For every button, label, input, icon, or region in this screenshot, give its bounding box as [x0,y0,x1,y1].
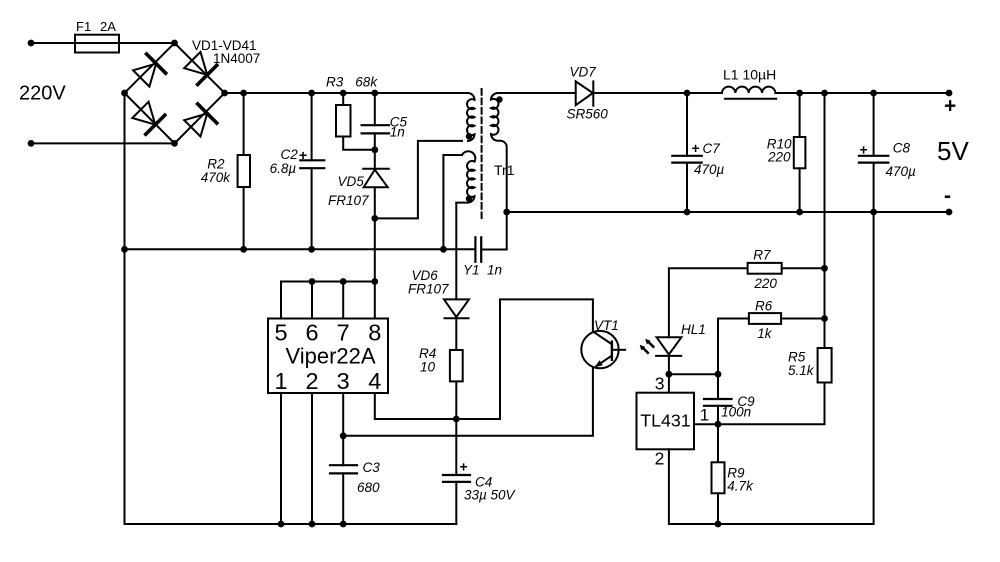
svg-text:220V: 220V [19,83,66,105]
svg-text:R7: R7 [753,248,771,263]
diode VD1 (bridge, top-left edge, pointing to top node) [132,54,166,88]
transformer Tr1 core (dashed) [481,89,483,218]
capacitor C5 bottom lead [374,133,376,168]
transformer Tr1 aux winding [456,151,475,202]
svg-text:+: + [692,140,700,156]
node transformer primary phase dot [466,133,472,139]
wire pin 8 stub [374,282,376,319]
resistor R6 body [749,313,781,324]
wire drain bus joining pins 5,6,7,8 [281,281,375,283]
svg-text:6: 6 [305,319,318,345]
node terminal output - [946,209,953,216]
diode VD4 (bridge, bottom-right edge, pointing to right node) [183,104,217,138]
wire pin 7 stub [342,282,344,319]
svg-text:5.1k: 5.1k [788,363,815,378]
node terminal input bottom [28,140,35,147]
wire VDD node to VT1 collector [456,299,593,419]
inductor L1 core line [725,98,776,100]
wire output + rail after L1 [775,92,949,94]
wire DC- left vertical from bridge left node down [124,93,126,524]
node C9 top [715,371,722,378]
inductor L1 [722,87,775,93]
svg-text:Y1: Y1 [463,263,480,278]
wire pin 4 jog to VDD node [375,393,457,419]
wire sense node down to R5 [824,268,826,348]
node C7 bottom [684,209,691,216]
svg-text:TL431: TL431 [640,411,691,431]
svg-text:470k: 470k [201,170,232,185]
node bridge bottom [171,140,178,147]
svg-text:1n: 1n [390,125,405,140]
node C8 bottom [870,209,877,216]
node bridge right [221,90,228,97]
svg-text:1N4007: 1N4007 [213,51,260,66]
capacitor C7 plates [672,156,701,163]
resistor R2 column wire [243,93,245,249]
capacitor C5 top lead [374,93,376,125]
resistor R3 bottom lead and jog to C5 line [343,137,375,150]
node C2 bottom [308,246,315,253]
IC U2 TL431 body [637,393,695,450]
svg-text:Tr1: Tr1 [494,162,515,178]
node sense top [821,90,828,97]
resistor R4 body [450,350,463,381]
wire FB from pin 3 to VT1 emitter [343,368,593,436]
node R6 right [821,315,828,322]
svg-text:C2: C2 [281,147,299,162]
node FB junction [340,432,347,439]
capacitor C5 plates [362,125,389,133]
wire pin 5 stub [280,282,282,319]
wire HL1 anode from R7 left [669,268,748,337]
wire R9 bottom to secondary ground [717,493,719,524]
svg-text:R6: R6 [755,298,773,313]
resistor R10 body [794,137,806,168]
node transformer secondary phase dot [496,96,502,102]
node C2 top [308,90,315,97]
svg-text:VD7: VD7 [570,65,597,80]
svg-text:4.7k: 4.7k [727,478,754,493]
svg-text:VT1: VT1 [594,318,619,333]
transistor VT1 emitter diagonal [597,356,612,366]
node HL1 cathode / TL431 ref [666,371,673,378]
node VDD junction [453,416,460,423]
svg-text:2: 2 [655,449,665,469]
svg-text:220: 220 [767,149,791,164]
IC U1 Viper22A body [268,319,388,394]
capacitor C8 plates [859,156,888,163]
svg-text:5: 5 [274,319,287,345]
svg-text:+: + [860,142,868,158]
wire drain line down to pin bus (crosses mid rail, no dot) [374,218,376,281]
resistor R3 top lead [342,93,344,105]
svg-text:C8: C8 [893,141,911,156]
wire snubber junction to transformer primary bottom [375,141,462,219]
svg-text:33µ 50V: 33µ 50V [464,488,517,503]
transistor VT1 base stub [612,349,625,351]
resistor R2 body [238,155,250,187]
wire pin1 node down to R9 [717,424,719,462]
node pin 3 ground [340,521,347,528]
transistor VT1 base bar [611,342,613,360]
capacitor C8 bottom lead [873,163,875,212]
wire bridge edge top-left [125,43,175,93]
node R2 top [240,90,247,97]
resistor R10 bottom lead [799,168,801,212]
wire VD5 anode down to drain junction [374,187,376,218]
node R10 bottom [796,209,803,216]
diode VD6 (pointing down, cathode bar below) [444,299,469,318]
svg-text:1n: 1n [487,263,502,278]
node bridge top [171,40,178,47]
svg-text:-: - [944,185,951,208]
node snubber junction R3/C5/VD5 [371,146,378,153]
transistor VT1 emitter arrowhead [595,360,603,367]
node pin 2 ground [309,521,316,528]
wire secondary ground from C8 down and left [669,212,874,524]
svg-text:470µ: 470µ [886,164,917,179]
wire bridge edge top-right [175,43,225,93]
svg-text:2A: 2A [100,19,116,34]
svg-text:68k: 68k [355,75,378,90]
wire pin 6 stub [311,282,313,319]
node secondary bottom [503,209,510,216]
svg-text:680: 680 [357,480,380,495]
capacitor C3 plates [330,465,357,473]
transistor VT1 collector diagonal [593,332,611,344]
wire pin 3 down to C3 [342,393,344,465]
resistor R10 top lead [799,93,801,137]
capacitor C2 top lead [311,93,313,160]
node pin 1 ground [278,521,285,528]
node pin 8 bus [371,278,378,285]
svg-text:5V: 5V [937,136,969,166]
svg-text:1: 1 [700,406,709,425]
wire output - rail [507,211,949,213]
node R9 ground [715,521,722,528]
node drain/snubber/primary junction [371,215,378,222]
capacitor C9 plates [704,399,732,406]
wire TL431 pin 2 down to secondary ground [668,449,670,524]
svg-text:10: 10 [420,360,436,375]
svg-text:100n: 100n [721,405,751,420]
svg-text:C7: C7 [703,141,721,156]
wire R6 left lead down to node 3 [718,319,749,375]
node R10 top [796,90,803,97]
capacitor Y1 plates (vertical) [475,237,481,261]
capacitor C7 bottom lead [686,163,688,212]
resistor R7 body [748,263,782,274]
node terminal input top [28,40,35,47]
svg-text:+: + [460,459,468,475]
LED HL1 light arrows [643,342,653,353]
wire HL1 cathode to TL431 pin 3 [668,356,670,393]
svg-text:4: 4 [368,368,381,394]
wire R4 bottom to VDD node and C4 [455,381,457,475]
svg-text:HL1: HL1 [681,322,706,337]
capacitor C2 bottom lead [311,168,313,249]
svg-text:1: 1 [274,368,287,394]
resistor R3 body [336,105,351,137]
transistor VT1 optocoupler circle [581,331,618,368]
transformer Tr1 primary winding [467,93,475,141]
resistor R9 body [712,462,725,493]
svg-text:L1 10µH: L1 10µH [723,67,776,83]
svg-text:7: 7 [337,319,350,345]
wire secondary top to VD7 anode [498,92,576,94]
node mid rail left [121,246,128,253]
svg-text:R3: R3 [326,75,344,90]
capacitor C9 top lead [717,374,719,399]
capacitor C3 bottom lead [342,473,344,524]
node pin 6 bus [309,278,316,285]
LED HL1 (pointing down) [656,337,681,356]
capacitor C8 top lead [873,93,875,156]
svg-text:1k: 1k [757,326,773,341]
svg-text:2: 2 [305,368,318,394]
svg-text:220: 220 [753,276,777,291]
node bridge left [121,90,128,97]
svg-text:FR107: FR107 [328,193,369,208]
svg-text:F1: F1 [76,19,91,34]
wire VD6 cathode to R4 [455,318,457,350]
wire R6 right to sense node [781,318,824,320]
LED HL1 light arrowheads [645,339,650,345]
diode VD2 (bridge, top-right edge, pointing to right node) [183,51,217,85]
wire feedback sense line from +5V down to R7 (crosses - rail, no dot) [824,93,826,268]
wire aux winding bottom down to VD6 (crosses mid rail, no dot) [455,203,457,299]
wire bridge edge bottom-left [125,93,175,143]
wire primary ground mid rail [125,248,476,250]
wire pin 2 down to ground rail [311,393,313,524]
wire input top from terminal to bridge top node [31,42,175,44]
svg-text:Viper22A: Viper22A [285,344,375,369]
svg-text:3: 3 [655,374,665,394]
wire node 3 horizontal to C9/R6 column [669,373,718,375]
capacitor C4 plates [443,475,470,482]
fuse F1 [75,35,119,53]
node pin 7 bus [340,278,347,285]
node TL431 pin 1 / C9 bottom [715,421,722,428]
capacitor C4 bottom lead to ground rail [455,482,457,524]
svg-text:SR560: SR560 [567,106,609,121]
diode VD5 (pointing up, cathode bar on top) [363,169,389,187]
wire DC+ rail from bridge right node to transformer primary [225,92,468,94]
node R2 bottom [240,246,247,253]
diode VD7 (pointing right) [576,81,594,105]
svg-text:3: 3 [337,368,350,394]
diode VD3 (bridge, bottom-left edge, pointing to bottom node) [131,100,165,134]
capacitor C9 bottom lead to pin 1 node [717,406,719,424]
wire bridge edge bottom-right [175,93,225,143]
node aux-top to mid rail [440,246,447,253]
svg-text:+: + [944,95,956,118]
node terminal output + [946,90,953,97]
svg-text:8: 8 [368,319,381,345]
svg-text:470µ: 470µ [694,162,725,177]
svg-text:VD5: VD5 [338,174,365,189]
svg-text:+: + [299,147,307,163]
capacitor C2 plates [300,160,324,168]
resistor R5 body [818,348,832,383]
node C8 top [870,90,877,97]
node R3 top [340,90,347,97]
node C7 top [684,90,691,97]
wire VD7 cathode to output + rail [593,92,722,94]
wire R5 bottom to TL431 pin 1 [694,383,825,425]
svg-text:FR107: FR107 [408,282,449,297]
wire secondary bottom to Y1 right plate [481,212,507,250]
node R7 right [821,265,828,272]
wire pin 1 down to ground rail [280,393,282,524]
transformer Tr1 secondary winding [491,93,507,212]
wire input bottom from terminal to bridge bottom node [31,142,175,144]
svg-text:6.8µ: 6.8µ [270,161,297,176]
svg-text:C3: C3 [363,460,381,475]
wire primary bottom rail [125,523,457,525]
wire R7 right to sense node [782,267,825,269]
wire aux winding top to primary ground (vertical) [443,155,462,249]
node transformer aux phase dot [466,196,472,202]
capacitor C7 top lead [686,93,688,156]
node C5 top [371,90,378,97]
